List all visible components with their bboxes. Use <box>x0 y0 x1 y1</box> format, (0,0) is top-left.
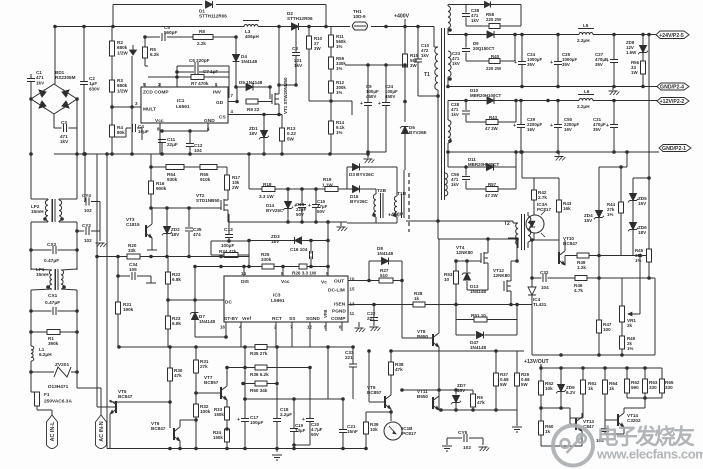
svg-text:5W: 5W <box>287 136 295 141</box>
dot c19 <box>292 397 296 447</box>
svg-text:450V: 450V <box>366 94 376 99</box>
svg-text:+: + <box>237 417 240 423</box>
diode D15 BYV26C <box>350 186 369 205</box>
svg-text:BYV26C: BYV26C <box>266 208 284 213</box>
wire C28 R43 snubber <box>466 101 516 123</box>
wire 24V right drop <box>648 35 650 179</box>
transistor Q VT12 12NK80 mosfet <box>493 261 511 305</box>
capacitor C17 100uF <box>237 415 263 425</box>
svg-text:BC857: BC857 <box>204 380 219 385</box>
capacitor C2 1uF 630V <box>80 27 101 155</box>
resistor R49 1.2k <box>577 253 589 270</box>
svg-text:1N4148: 1N4148 <box>199 319 216 324</box>
svg-text:27k: 27k <box>200 364 208 369</box>
svg-text:+12V/P2-2: +12V/P2-2 <box>660 99 685 105</box>
svg-text:1k: 1k <box>414 296 420 301</box>
wire gate up link <box>236 87 238 102</box>
connector +24V/P2-5 <box>656 31 689 39</box>
dots source row <box>286 220 330 224</box>
svg-text:+: + <box>308 203 311 209</box>
resistor R65 330 <box>659 368 673 398</box>
thermistor TH1 10D-9 <box>353 9 368 30</box>
svg-text:VFB: VFB <box>323 310 328 318</box>
dot r33 <box>225 427 229 431</box>
svg-text:100k: 100k <box>200 409 211 414</box>
wire GND pin down <box>162 123 208 144</box>
dot GD <box>235 100 239 104</box>
svg-text:Vcc: Vcc <box>281 279 290 285</box>
wire 12V rail <box>448 100 657 102</box>
capacitor C21 15nF <box>339 399 358 449</box>
svg-text:1k: 1k <box>588 386 594 391</box>
resistor R30 47k <box>167 368 182 381</box>
wire D4 column <box>235 37 237 87</box>
diode D1 STTH112R06 <box>199 1 227 19</box>
svg-text:DC-LIM: DC-LIM <box>328 288 345 294</box>
svg-text:RCT: RCT <box>272 316 282 322</box>
wire CS row <box>228 114 282 116</box>
ground on return rail <box>364 154 375 163</box>
wire isen row <box>348 304 532 306</box>
wire D5 row <box>236 87 270 99</box>
dot R12 node <box>307 25 333 103</box>
dot vt10 base <box>530 238 534 242</box>
svg-text:15V: 15V <box>638 201 647 206</box>
dot pin16 <box>224 335 228 339</box>
wire bridge left column <box>30 99 32 154</box>
svg-text:SGND: SGND <box>306 316 320 322</box>
svg-text:190k: 190k <box>123 307 134 312</box>
svg-text:C3: C3 <box>61 120 67 125</box>
wire c17 col <box>244 347 246 449</box>
svg-text:VT1 STW20NM50: VT1 STW20NM50 <box>283 77 288 114</box>
dots 255 row <box>597 254 642 258</box>
svg-text:DIS: DIS <box>241 279 250 285</box>
svg-text:BC847: BC847 <box>151 426 166 431</box>
dots cx1 <box>29 309 79 313</box>
svg-text:22μF: 22μF <box>167 142 178 147</box>
svg-text:100μF: 100μF <box>250 420 263 425</box>
wire 400V to T2 <box>406 221 513 223</box>
capacitor C19 33uF <box>290 423 306 433</box>
svg-text:1kV: 1kV <box>421 53 429 58</box>
svg-text:T1B: T1B <box>397 191 407 197</box>
svg-text:R8: R8 <box>199 29 205 34</box>
svg-text:DC: DC <box>225 300 232 306</box>
svg-text:50V: 50V <box>296 212 304 217</box>
dots row256 <box>95 255 223 259</box>
wire zd4 top <box>599 152 627 167</box>
wire zd9 row <box>541 407 570 409</box>
capacitor C23 471 1kV <box>452 49 470 67</box>
dots vcc area <box>160 129 192 156</box>
resistor R32 100k <box>193 404 210 417</box>
svg-text:3.3 1W: 3.3 1W <box>259 194 274 199</box>
resistor R18 3.3 1W <box>259 182 275 199</box>
potentiometer VR1 2k <box>619 256 640 329</box>
svg-text:16k: 16k <box>563 206 571 211</box>
svg-text:+400V: +400V <box>394 14 410 20</box>
wire MULT node <box>112 106 141 108</box>
dot r39 <box>389 410 393 414</box>
wire vc column <box>327 222 329 276</box>
wire r22 r23 column <box>167 257 169 348</box>
dot 399 <box>341 397 345 401</box>
wire 400v rail to caps <box>404 101 406 103</box>
svg-text:150k: 150k <box>213 435 223 440</box>
transformer T2 <box>504 212 531 250</box>
svg-text:CY5: CY5 <box>458 430 468 436</box>
transformer T1 secondary mid winding <box>448 51 452 87</box>
svg-text:PGND: PGND <box>332 309 346 315</box>
dots bottom right rail <box>559 353 624 357</box>
transformer T1B <box>393 170 406 223</box>
dots cx2 <box>29 248 79 252</box>
resistor R53 10 <box>444 271 459 284</box>
svg-text:15mH: 15mH <box>36 272 49 277</box>
zener ZD4 15V <box>584 167 604 256</box>
wire c33 down <box>327 347 329 399</box>
wire vt9 base <box>369 351 385 402</box>
svg-text:L6: L6 <box>584 89 590 94</box>
resistor R63 330 <box>642 368 657 398</box>
svg-text:35V: 35V <box>593 127 601 132</box>
svg-text:R9 22: R9 22 <box>247 107 260 112</box>
svg-text:2.2k: 2.2k <box>197 41 206 46</box>
svg-text:2.2μH: 2.2μH <box>577 104 590 109</box>
dots rail347 <box>117 345 355 349</box>
zener ZD1 18V <box>249 115 269 155</box>
svg-text:15mH: 15mH <box>31 209 44 214</box>
svg-text:6.2μH: 6.2μH <box>39 352 52 357</box>
svg-text:MBR20H100CT: MBR20H100CT <box>470 93 502 98</box>
wire y154 to R18 row <box>249 154 347 189</box>
svg-text:100: 100 <box>603 327 611 332</box>
wire ac vert R <box>59 154 77 269</box>
svg-text:18V: 18V <box>271 239 280 244</box>
wire r1 row <box>31 311 77 332</box>
resistor R19 1.1W <box>322 177 338 192</box>
svg-text:18V: 18V <box>249 131 258 136</box>
svg-text:1.1W: 1.1W <box>322 183 333 188</box>
wire emitter rail <box>441 410 517 426</box>
dot 400v cross <box>436 219 440 223</box>
zener ZD5 15V <box>628 194 647 207</box>
svg-text:0.47μF: 0.47μF <box>44 258 59 264</box>
wire out pin net <box>348 261 402 338</box>
dot drain row <box>486 237 490 241</box>
svg-text:R50 34k: R50 34k <box>250 388 268 393</box>
wire r31 col <box>195 347 197 449</box>
resistor R62 590 <box>624 368 639 398</box>
transistor Q VT3 C1815 <box>126 208 152 246</box>
wire C9 column <box>367 65 369 154</box>
ground comp pin <box>355 328 366 332</box>
resistor R61 1k <box>580 368 596 418</box>
wire snubber top <box>455 5 521 27</box>
svg-text:1kV: 1kV <box>451 112 459 117</box>
dot vt9 top <box>367 349 498 353</box>
capacitor C9 100uF 450V <box>360 84 379 107</box>
svg-text:250VAC6.3A: 250VAC6.3A <box>44 399 72 405</box>
svg-text:ZV201: ZV201 <box>55 362 69 368</box>
svg-text:C7 1μF: C7 1μF <box>203 69 219 74</box>
svg-text:930k: 930k <box>167 177 178 182</box>
wire vt8 base <box>402 337 433 339</box>
svg-text:1.2k: 1.2k <box>577 265 586 270</box>
capacitor C56 471 1kV <box>451 172 470 187</box>
svg-text:12NK80: 12NK80 <box>493 273 510 278</box>
capacitor C5 560pF <box>162 25 177 41</box>
svg-text:1N4148: 1N4148 <box>377 251 394 256</box>
svg-text:10μF: 10μF <box>138 129 149 134</box>
svg-text:5W: 5W <box>521 382 528 387</box>
op-amp U IC3 L5991 box <box>220 271 355 330</box>
svg-text:CY2: CY2 <box>82 223 91 228</box>
wire c18 col <box>276 347 278 449</box>
svg-text:R43: R43 <box>489 115 498 120</box>
resistor R45 33k 1% <box>635 248 652 278</box>
wire zd2 c35 columns <box>167 208 189 257</box>
capacitor C14 22uF 50V <box>294 189 307 222</box>
capacitor CY5 102 <box>447 430 483 451</box>
svg-text:Vcc: Vcc <box>155 118 164 124</box>
wire mult gnd vertical <box>131 56 133 154</box>
svg-text:OUT: OUT <box>334 279 344 285</box>
capacitor C28 471 1kV <box>451 102 470 117</box>
resistor R47 100 <box>596 320 611 333</box>
wire bridge top feed <box>54 27 56 85</box>
watermark logo circle <box>553 426 593 466</box>
resistor R37 0.68 5W <box>493 372 509 410</box>
svg-text:R24 47k: R24 47k <box>219 249 237 254</box>
ground bottom rail <box>272 449 282 461</box>
svg-text:+: + <box>550 123 553 129</box>
svg-text:10: 10 <box>444 277 450 282</box>
resistor R4 80k <box>109 125 125 137</box>
svg-text:L5991: L5991 <box>271 298 285 304</box>
svg-text:STD1NB50: STD1NB50 <box>196 198 220 203</box>
capacitor C50 2200uF 16V <box>550 101 579 153</box>
svg-text:ZCD COMP: ZCD COMP <box>143 90 169 96</box>
svg-text:33μF: 33μF <box>295 428 306 433</box>
capacitor C11 22uF <box>158 137 178 154</box>
resistor R12 300k 1% <box>328 80 346 95</box>
capacitor CX2 0.47uF <box>44 242 59 264</box>
resistor R11 560k 1% <box>328 34 346 49</box>
capacitor C3 471 1kV <box>60 120 69 144</box>
svg-text:GND/P2-1: GND/P2-1 <box>662 146 686 152</box>
wire rail 367 <box>227 367 310 369</box>
wire vt7 nets <box>196 368 227 408</box>
resistor R13 0.22 5W <box>279 115 296 155</box>
svg-text:TL431: TL431 <box>533 302 547 307</box>
svg-text:330: 330 <box>665 385 673 390</box>
svg-text:1%: 1% <box>627 346 633 351</box>
transistor Q VT1 STW20NM50 mosfet <box>272 77 288 115</box>
wire +400V rail <box>55 27 434 48</box>
capacitor C6 220pF <box>189 58 210 70</box>
wire r62 r65 join <box>627 398 662 408</box>
zener ZD7 18V <box>451 383 466 410</box>
svg-text:C32: C32 <box>540 270 549 275</box>
dot 266 row <box>193 265 251 269</box>
resistor R43 47 2W <box>485 115 499 131</box>
svg-text:Vref: Vref <box>242 316 251 322</box>
ground cy5 right <box>479 447 490 451</box>
zener ZD2 18V <box>162 227 180 238</box>
wire vr1 col <box>599 278 622 355</box>
capacitor C29 2200uF 16V <box>513 101 542 153</box>
inductor L1 6.2uH <box>31 332 52 372</box>
transistor Q VT2 STD1NB50 mosfet <box>196 190 228 222</box>
svg-text:102: 102 <box>84 238 92 243</box>
resistor R46 4.7k <box>574 275 587 293</box>
resistor R33 150k <box>214 407 230 429</box>
transistor Q VT4 12NK80 mosfet <box>456 239 488 290</box>
capacitor C35 474 <box>185 227 202 237</box>
ground chassis on rail2 <box>555 152 566 161</box>
svg-text:+: + <box>513 123 516 129</box>
capacitor C22 221 <box>367 305 380 332</box>
diode D9 20Q150CT <box>473 31 495 51</box>
transformer LP2 15mH common mode choke <box>31 199 64 222</box>
svg-text:15V: 15V <box>584 218 593 223</box>
wire vt5 wiring <box>97 400 170 449</box>
capacitor C31 470uF 35V <box>593 101 618 153</box>
transformer T2B <box>372 188 386 223</box>
connector AC IN-N <box>96 415 107 449</box>
capacitor C1 471 1kV <box>27 70 45 99</box>
svg-text:1%: 1% <box>336 130 342 135</box>
capacitor CY2 102 <box>77 202 100 244</box>
resistor R25 330k <box>261 252 274 269</box>
transistor Q VT14 C3202 <box>618 413 641 427</box>
svg-text:CY4: CY4 <box>82 193 91 198</box>
svg-text:GND: GND <box>204 118 215 124</box>
dot cy4 <box>75 152 87 233</box>
dot r63 <box>643 396 647 400</box>
capacitor C13 100uF <box>224 214 233 241</box>
resistor R51 10 <box>471 313 487 322</box>
resistor R59 330k 1% <box>328 56 346 71</box>
svg-text:1%: 1% <box>607 212 613 217</box>
svg-text:GND/P2-4: GND/P2-4 <box>660 85 684 91</box>
wire 24V rail <box>448 34 656 36</box>
svg-text:1kV: 1kV <box>471 18 479 23</box>
op-amp U IC1 L6561 box <box>135 82 234 132</box>
svg-text:BYV26C: BYV26C <box>350 199 369 204</box>
svg-text:220 2W: 220 2W <box>486 17 502 22</box>
resistor R58 220 2W <box>486 12 502 29</box>
svg-text:12NK80: 12NK80 <box>456 250 473 255</box>
transformer T1 aux winding <box>445 173 448 196</box>
resistor R36 6.2k <box>250 365 269 377</box>
wire bottom rail right <box>532 278 655 355</box>
svg-text:33k: 33k <box>128 248 136 253</box>
svg-text:R18: R18 <box>263 182 272 187</box>
resistor R17 10k 2W <box>224 175 240 190</box>
wire rail 383 <box>243 383 277 385</box>
svg-text:BC847: BC847 <box>118 394 133 399</box>
svg-text:1k: 1k <box>609 386 615 391</box>
resistor R38 47k <box>388 351 403 383</box>
svg-text:1k: 1k <box>545 429 551 434</box>
svg-text:INV: INV <box>213 90 222 96</box>
resistor R52 10k <box>538 381 553 395</box>
wire bridge bottom to C3 <box>54 99 77 128</box>
dots isen <box>372 303 519 307</box>
dot out <box>367 279 404 283</box>
dot drain <box>277 25 298 87</box>
wire C10 bottom <box>418 95 438 97</box>
wire C9 C24 top <box>345 64 405 66</box>
dots row240 <box>247 239 330 269</box>
resistor R26 3.3 1W <box>292 264 317 276</box>
svg-text:R26 3.3 1W: R26 3.3 1W <box>292 271 317 276</box>
dot vt12 <box>515 237 519 263</box>
dot zd5 top <box>647 176 651 180</box>
wire r47 col <box>598 256 600 356</box>
svg-text:AC IN-N: AC IN-N <box>99 421 105 441</box>
diode D snubber top <box>485 2 491 8</box>
svg-text:1%: 1% <box>336 90 342 95</box>
resistor R40 220 2W <box>486 54 502 71</box>
svg-text:0.47μF: 0.47μF <box>45 300 60 306</box>
svg-text:47 2W: 47 2W <box>485 193 499 198</box>
svg-text:L6561: L6561 <box>176 104 190 110</box>
resistor R24 47k <box>219 243 238 258</box>
watermark text <box>596 424 703 462</box>
svg-text:MULT: MULT <box>143 107 156 113</box>
svg-text:10k: 10k <box>370 427 378 432</box>
svg-text:T2B: T2B <box>377 188 387 194</box>
svg-text:6.2k: 6.2k <box>150 52 159 57</box>
svg-text:15nF: 15nF <box>347 429 358 434</box>
svg-text:104: 104 <box>541 285 549 290</box>
svg-text:PC817: PC817 <box>402 431 416 436</box>
transformer T1 core <box>424 28 445 200</box>
dots 12V rail <box>464 99 616 103</box>
wire comp gnd <box>358 322 360 327</box>
wire row 256 <box>97 256 249 258</box>
ground C34 <box>146 282 156 284</box>
svg-text:C16 104: C16 104 <box>290 247 308 252</box>
svg-text:18V: 18V <box>171 232 180 237</box>
wire d47 row <box>456 334 517 336</box>
transistor Q VT7 BC857 <box>204 375 227 400</box>
junction dots bridge <box>29 25 86 156</box>
transistor Q VT5 BC847 <box>110 389 133 414</box>
resistor R1 390k <box>47 329 60 346</box>
wire C23 R40 snubber <box>466 35 515 62</box>
wire vt6 nets <box>180 420 196 449</box>
resistor R39 10k <box>363 412 378 449</box>
svg-text:1%: 1% <box>336 66 342 71</box>
resistor R6 47k <box>470 390 485 410</box>
svg-text:C13: C13 <box>224 227 233 233</box>
dots 13v rail <box>539 366 647 370</box>
wire c4 stub <box>112 128 126 137</box>
svg-text:4.7k: 4.7k <box>574 288 583 293</box>
wire R11 column <box>330 27 332 155</box>
svg-text:1kV: 1kV <box>36 80 45 85</box>
capacitor C8 221 1kV <box>292 27 303 86</box>
fuse F1 250VAC6.3A <box>31 372 72 415</box>
wire tl431 vert <box>531 240 533 355</box>
wire 13v rail <box>541 367 662 369</box>
wire C56 R57 snubber <box>466 167 516 189</box>
